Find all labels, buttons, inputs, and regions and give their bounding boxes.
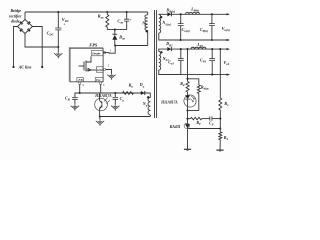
- node: C_P1 bottom: [211, 74, 213, 76]
- svg-text:+: +: [63, 22, 65, 26]
- rectifier diode D_R(n): [167, 12, 171, 16]
- capacitor C_o(n): [180, 14, 182, 23]
- light arrows into phototransistor: [104, 98, 110, 104]
- polarity dot (Ns1): [160, 51, 162, 53]
- svg-text:FPS: FPS: [89, 43, 98, 48]
- polarity dot (Ns(n)): [160, 16, 162, 18]
- internal MOSFET Q: [79, 56, 97, 71]
- node: C_a junction: [114, 92, 116, 94]
- node: C_DC bottom junction: [57, 46, 59, 48]
- pin box: Drain: [92, 50, 104, 55]
- svg-text:DR1: DR1: [165, 41, 173, 47]
- svg-text:DR(n): DR(n): [165, 7, 175, 13]
- node: compensation branch: [186, 118, 188, 120]
- node: feedback sense tap: [186, 48, 188, 50]
- pin stub: Drain pin square: [104, 52, 106, 54]
- svg-text:Dsn: Dsn: [118, 35, 125, 41]
- wire: top V_DC rail: [25, 11, 148, 13]
- diode D_a: [134, 92, 141, 94]
- svg-text:Drain: Drain: [91, 52, 100, 56]
- wire: sense drop (crosses return rail): [187, 49, 189, 79]
- transformer core: [154, 10, 156, 118]
- wire: down to compensation node: [187, 111, 189, 119]
- node: R_d / R_bias split: [186, 78, 188, 80]
- pin box: FB: [77, 78, 83, 82]
- capacitor C_P(n): [211, 14, 213, 23]
- ground (opto emitter): [96, 120, 104, 126]
- svg-text:FB: FB: [78, 78, 82, 82]
- svg-text:KA431: KA431: [169, 125, 181, 129]
- shunt regulator U3 KA431: [187, 119, 189, 125]
- svg-text:diode: diode: [11, 20, 20, 24]
- wire: bridge left to AC terminal: [14, 27, 18, 67]
- transformer aux winding Na: [149, 93, 151, 98]
- capacitor C_P1: [211, 49, 213, 59]
- wire: bridge bottom to C_DC bottom node: [25, 34, 58, 48]
- svg-text:RF: RF: [196, 121, 202, 126]
- node: R_1 sense tap: [219, 48, 221, 50]
- snubber capacitor C_sn: [126, 11, 128, 13]
- resistor R_F: [188, 118, 191, 120]
- node: FB junction: [79, 92, 81, 94]
- ground (FPS GND pin): [107, 74, 115, 80]
- svg-text:2: 2: [108, 64, 110, 67]
- svg-text:NS(n): NS(n): [161, 20, 170, 26]
- svg-text:R2: R2: [224, 135, 229, 141]
- wire: output n top: [172, 13, 229, 15]
- wire: output 1 bottom rail: [159, 74, 229, 76]
- svg-text:CB: CB: [65, 96, 70, 102]
- bridge rectifier BD1: [18, 20, 33, 34]
- svg-text:H11A817A: H11A817A: [160, 100, 178, 104]
- svg-text:Da: Da: [139, 82, 145, 88]
- filter inductor L_P1: [191, 47, 206, 49]
- pin stub: GND pin + wire to ground: [104, 68, 106, 70]
- node: C_o(n) top: [180, 13, 182, 15]
- svg-text:Bridge: Bridge: [10, 9, 22, 13]
- wire: KA431 ref line: [188, 128, 220, 130]
- wire: output 1 top: [172, 48, 229, 50]
- pin box: Vcc: [95, 78, 103, 82]
- node: LED cathode / R_bias junction: [186, 109, 188, 111]
- node: C_o1 top: [180, 48, 182, 50]
- svg-text:rectifier: rectifier: [9, 14, 22, 18]
- capacitor C_o1: [180, 49, 182, 59]
- resistor R_d: [187, 79, 189, 82]
- resistor R_1: [219, 98, 222, 110]
- wire: bridge top to rail: [24, 12, 26, 20]
- resistor R_2: [219, 132, 222, 140]
- polarity dot (Np): [146, 30, 148, 32]
- svg-text:Na: Na: [142, 101, 148, 107]
- svg-text:4: 4: [82, 84, 84, 87]
- ground (primary, below C_DC): [54, 52, 62, 58]
- svg-text:H11A817A: H11A817A: [94, 94, 112, 98]
- wire: Vcc pin down: [100, 84, 102, 93]
- svg-text:GND: GND: [97, 68, 104, 72]
- svg-text:1: 1: [110, 49, 112, 52]
- svg-text:+: +: [130, 18, 132, 22]
- opto-coupler U2 LED (H11A817A): [184, 95, 196, 107]
- wire: bridge right to AC terminal: [33, 27, 43, 67]
- node: C_P(n) bottom: [211, 39, 213, 41]
- wire: R_1 drop (crosses return rail): [219, 49, 221, 98]
- polarity dot (Na): [147, 96, 149, 98]
- snubber resistor R_sn: [106, 11, 108, 13]
- resistor R_bias: [197, 85, 200, 94]
- FPS controller block U1: [70, 48, 103, 82]
- pin box: GND: [96, 67, 103, 72]
- ground (KA431): [184, 149, 191, 151]
- svg-text:Rsn: Rsn: [98, 13, 104, 19]
- AC terminal dots: [12, 66, 14, 68]
- transformer T1 primary winding Np: [147, 12, 149, 15]
- svg-text:Ca: Ca: [120, 96, 125, 102]
- svg-text:Co(n): Co(n): [182, 27, 190, 33]
- wire: branch to R_bias: [188, 79, 199, 85]
- wire: drain node to primary bottom: [115, 45, 148, 47]
- node: snubber-diode junction: [114, 29, 116, 31]
- svg-text:Vo1: Vo1: [223, 60, 229, 66]
- wire: output n bottom: [181, 39, 229, 41]
- output terminal arrows V_o1: [227, 48, 230, 50]
- wire: aux return: [100, 116, 151, 118]
- wire: FB pin down to FB node: [79, 84, 81, 93]
- node: divider junction (R_F/C_F): [219, 118, 221, 120]
- svg-text:Rd: Rd: [180, 81, 185, 87]
- transformer secondary winding Ns(n): [159, 15, 161, 34]
- opto-coupler U2 phototransistor (H11A817A): [95, 98, 108, 111]
- svg-text:Ra: Ra: [129, 83, 134, 89]
- node: divider junction (ref): [219, 127, 221, 129]
- snubber diode D_sn: [114, 30, 116, 35]
- pin stub: Vcc pin square: [100, 82, 102, 84]
- svg-text:3: 3: [103, 84, 105, 87]
- node: C_o(n) bottom: [180, 39, 182, 41]
- node: drain node: [114, 44, 116, 46]
- svg-text:Vo(n): Vo(n): [222, 26, 230, 32]
- ground (C_B): [71, 105, 79, 111]
- svg-text:Vcc: Vcc: [96, 78, 102, 82]
- svg-text:LP(n): LP(n): [190, 7, 199, 13]
- svg-text:Rbias: Rbias: [201, 85, 210, 91]
- svg-text:CF: CF: [209, 121, 215, 126]
- transformer secondary winding Ns1: [159, 52, 161, 71]
- svg-text:Csn: Csn: [117, 18, 123, 24]
- svg-text:AC line: AC line: [18, 65, 32, 70]
- ground (R_2): [216, 150, 223, 152]
- wire: R_1 to divider: [219, 110, 221, 132]
- svg-text:CP(n): CP(n): [200, 27, 208, 33]
- svg-text:CP1: CP1: [200, 58, 207, 64]
- pin stub: FB pin square: [79, 82, 81, 84]
- rectifier diode D_R1: [167, 47, 171, 51]
- capacitor C_DC: [57, 12, 59, 28]
- node: emitter/aux-return junction: [99, 115, 101, 117]
- resistor R_a: [123, 92, 134, 95]
- output terminal arrows V_o(n): [227, 13, 230, 15]
- ground (C_a): [111, 105, 119, 111]
- capacitor C_B: [75, 93, 80, 97]
- light arrows from LED: [190, 96, 194, 102]
- capacitor C_F: [202, 118, 210, 120]
- svg-text:R1: R1: [224, 101, 229, 107]
- svg-text:CDC: CDC: [47, 30, 55, 36]
- filter inductor L_P(n): [186, 12, 200, 14]
- wire: drain pin to drain node: [103, 46, 115, 54]
- node: C_P1 top: [211, 48, 213, 50]
- wire: snubber bottom: [107, 29, 126, 31]
- capacitor C_a: [114, 93, 116, 97]
- svg-text:Co1: Co1: [168, 59, 174, 65]
- node: C_P(n) top: [211, 13, 213, 15]
- wire: FB/Vcc horizontal run: [80, 92, 151, 94]
